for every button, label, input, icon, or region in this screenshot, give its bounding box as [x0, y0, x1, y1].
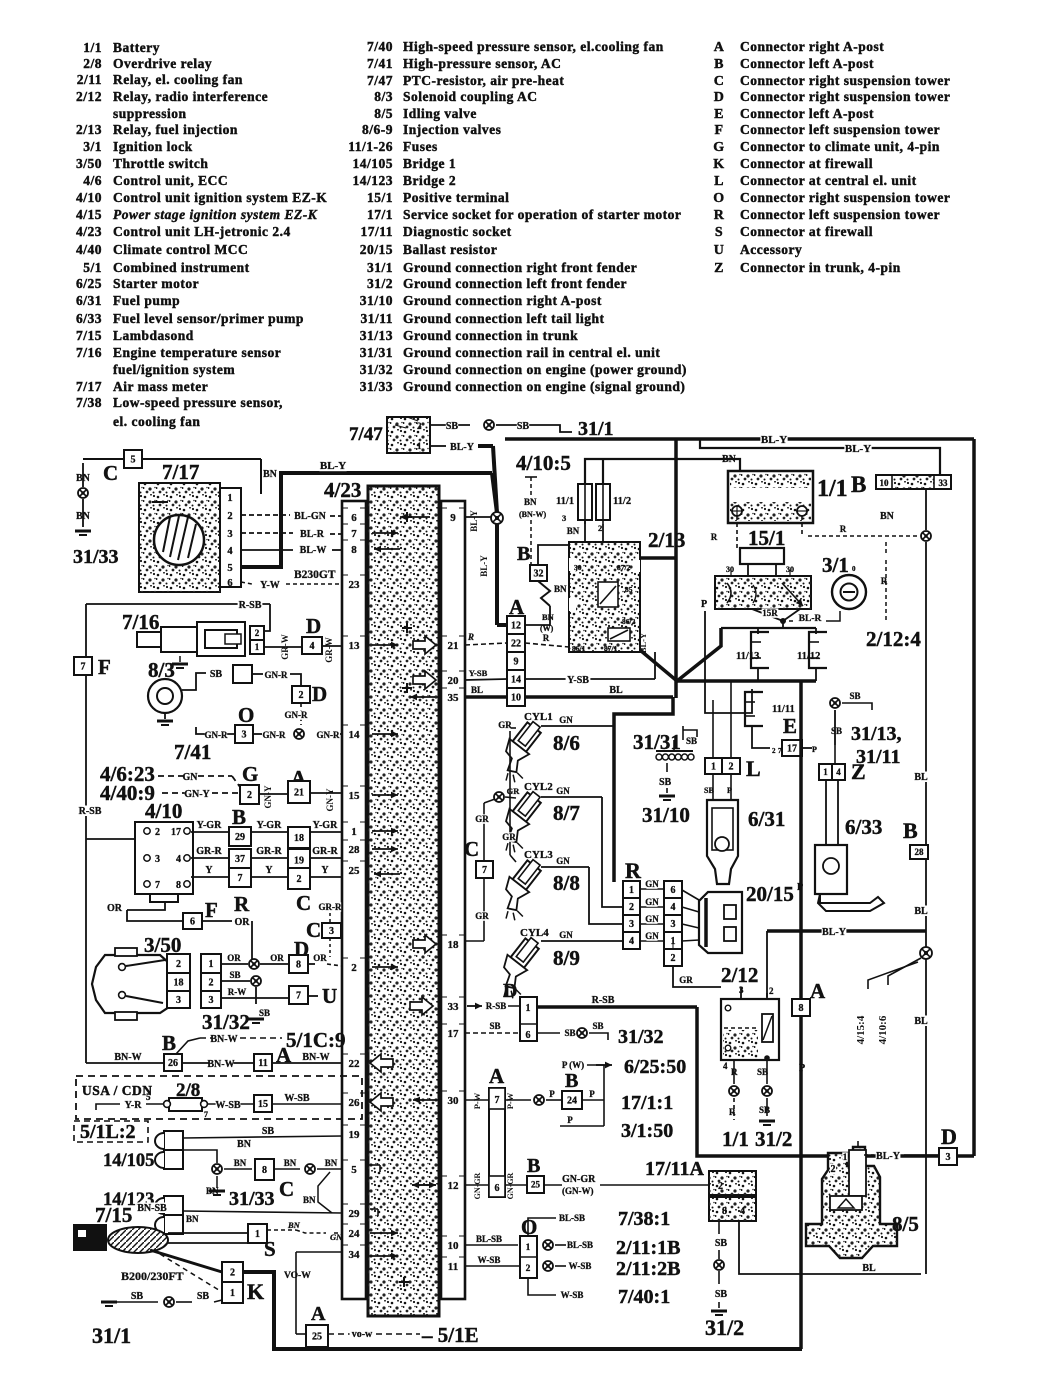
svg-text:1: 1 [227, 493, 232, 504]
svg-text:GR-W: GR-W [280, 634, 290, 660]
svg-text:R: R [714, 208, 725, 223]
svg-text:BN: BN [287, 1220, 301, 1230]
svg-text:SB: SB [686, 736, 697, 746]
svg-text:P (W): P (W) [562, 1060, 584, 1070]
svg-text:el. cooling fan: el. cooling fan [113, 414, 200, 429]
svg-text:GR: GR [507, 786, 521, 796]
svg-text:15: 15 [258, 1099, 268, 1110]
svg-text:4: 4 [629, 936, 634, 947]
svg-text:A: A [489, 1064, 505, 1088]
svg-text:5: 5 [227, 563, 232, 574]
svg-text:25: 25 [349, 865, 361, 877]
svg-text:CYL3: CYL3 [524, 849, 553, 861]
svg-text:BN-W: BN-W [114, 1052, 141, 1063]
svg-text:Connector right suspension tow: Connector right suspension tower [740, 73, 950, 88]
svg-text:4: 4 [723, 1061, 728, 1071]
svg-text:Relay, el. cooling fan: Relay, el. cooling fan [113, 72, 243, 87]
svg-text:GN-R: GN-R [263, 730, 286, 740]
svg-text:1: 1 [526, 1243, 531, 1253]
svg-text:Connector at firewall: Connector at firewall [740, 224, 873, 239]
svg-text:BN: BN [554, 584, 567, 594]
svg-text:Fuel pump: Fuel pump [113, 293, 180, 308]
svg-text:6/25:50: 6/25:50 [624, 1056, 686, 1078]
svg-text:BN-W: BN-W [210, 1034, 237, 1045]
svg-text:6: 6 [190, 917, 195, 928]
svg-text:1: 1 [526, 1003, 531, 1014]
svg-text:C: C [306, 918, 321, 942]
svg-text:20: 20 [448, 675, 460, 687]
svg-text:6: 6 [227, 578, 232, 589]
svg-text:Y: Y [265, 865, 273, 876]
svg-text:P-W: P-W [472, 1092, 482, 1109]
svg-text:BL-Y: BL-Y [761, 434, 787, 446]
svg-text:Service socket for operation o: Service socket for operation of starter … [403, 207, 681, 222]
svg-text:P-W: P-W [505, 1092, 515, 1109]
svg-text:R-SB: R-SB [486, 1001, 507, 1011]
svg-text:21: 21 [448, 640, 459, 652]
svg-text:BN: BN [263, 469, 278, 480]
svg-text:31/32: 31/32 [360, 362, 393, 377]
svg-text:86/2: 86/2 [622, 617, 636, 626]
svg-text:BN: BN [542, 612, 555, 622]
svg-text:BN: BN [186, 1214, 199, 1224]
svg-text:Y-R: Y-R [125, 1100, 143, 1111]
svg-text:31/10: 31/10 [642, 803, 690, 827]
svg-text:1/1: 1/1 [722, 1127, 749, 1151]
svg-text:7/16: 7/16 [122, 610, 159, 634]
svg-text:GN: GN [556, 856, 570, 866]
svg-text:7/15: 7/15 [95, 1203, 132, 1227]
svg-text:R: R [729, 1107, 736, 1117]
svg-text:GN-R: GN-R [205, 730, 228, 740]
svg-text:2: 2 [351, 962, 357, 974]
svg-text:1: 1 [351, 826, 357, 838]
svg-text:BL: BL [914, 906, 928, 917]
svg-text:18: 18 [174, 978, 184, 989]
svg-text:Control unit LH-jetronic 2.4: Control unit LH-jetronic 2.4 [113, 224, 291, 239]
svg-text:O: O [238, 703, 254, 727]
svg-text:GR: GR [498, 720, 512, 730]
svg-text:20/15: 20/15 [360, 242, 393, 257]
svg-text:W-SB: W-SB [561, 1290, 584, 1300]
svg-text:2/12:4: 2/12:4 [866, 627, 921, 651]
svg-text:BN-W: BN-W [207, 1059, 234, 1070]
svg-text:GN-R: GN-R [265, 670, 288, 680]
svg-text:E: E [714, 107, 724, 122]
svg-text:BL-GN: BL-GN [294, 511, 326, 522]
svg-text:6/31: 6/31 [76, 293, 102, 308]
svg-text:21: 21 [294, 788, 304, 799]
svg-text:31/2: 31/2 [705, 1315, 744, 1340]
svg-text:2: 2 [297, 874, 302, 885]
svg-text:6/33: 6/33 [845, 815, 882, 839]
svg-text:20/15: 20/15 [746, 882, 794, 906]
svg-text:Ground connection rail in cent: Ground connection rail in central el. un… [403, 345, 660, 360]
svg-text:32: 32 [534, 569, 544, 580]
svg-text:BN: BN [303, 1195, 316, 1205]
svg-text:29: 29 [235, 832, 245, 843]
svg-text:11/1: 11/1 [556, 496, 574, 507]
svg-text:BL-Y: BL-Y [638, 633, 648, 653]
svg-text:D: D [941, 1124, 957, 1149]
svg-text:GN-GR: GN-GR [473, 1172, 482, 1199]
svg-text:BL-W: BL-W [300, 545, 327, 556]
svg-text:BL-R: BL-R [300, 529, 325, 540]
svg-text:8/8: 8/8 [553, 871, 580, 895]
svg-text:GN-Y: GN-Y [263, 785, 273, 808]
svg-text:BN: BN [325, 1158, 338, 1168]
svg-text:Lambdasond: Lambdasond [113, 328, 194, 343]
svg-text:B: B [903, 818, 918, 843]
svg-text:2: 2 [227, 511, 232, 522]
svg-text:5: 5 [131, 455, 136, 466]
svg-text:2: 2 [155, 827, 160, 838]
svg-text:GN-Y: GN-Y [184, 789, 210, 800]
svg-text:31/1: 31/1 [92, 1323, 131, 1348]
svg-text:24: 24 [349, 1228, 361, 1240]
svg-text:25: 25 [312, 1332, 322, 1343]
svg-text:8/6-9: 8/6-9 [362, 122, 393, 137]
svg-text:11: 11 [448, 1261, 458, 1273]
svg-text:4: 4 [176, 854, 181, 865]
svg-text:14/105: 14/105 [103, 1151, 154, 1171]
svg-text:Y-SB: Y-SB [567, 675, 589, 686]
svg-text:SB: SB [262, 1126, 275, 1137]
svg-text:12: 12 [511, 621, 521, 632]
svg-text:(BN-W): (BN-W) [519, 510, 546, 519]
svg-text:L: L [714, 174, 724, 189]
svg-text:0: 0 [852, 565, 856, 573]
svg-text:BN: BN [284, 1158, 297, 1168]
svg-text:K: K [713, 157, 724, 172]
svg-text:R: R [711, 532, 718, 542]
svg-text:34: 34 [349, 1249, 361, 1261]
svg-text:5: 5 [146, 1092, 151, 1102]
svg-text:7: 7 [296, 991, 301, 1002]
svg-text:6: 6 [526, 1030, 531, 1041]
svg-text:6/25: 6/25 [76, 276, 102, 291]
svg-text:F: F [714, 123, 723, 138]
svg-text:PTC-resistor, air pre-heat: PTC-resistor, air pre-heat [403, 73, 564, 88]
svg-text:17/11: 17/11 [360, 224, 393, 239]
svg-text:O: O [713, 191, 724, 206]
svg-text:BN: BN [567, 526, 580, 536]
svg-text:P: P [549, 1089, 555, 1099]
svg-text:10: 10 [511, 693, 521, 704]
svg-text:3: 3 [209, 995, 214, 1006]
svg-text:7: 7 [155, 880, 160, 891]
svg-text:High-pressure sensor, AC: High-pressure sensor, AC [403, 56, 561, 71]
svg-text:31/2: 31/2 [367, 276, 393, 291]
svg-text:P: P [799, 1063, 805, 1074]
svg-text:8/3: 8/3 [374, 89, 393, 104]
svg-text:SB: SB [659, 777, 672, 788]
svg-text:Connector right suspension tow: Connector right suspension tower [740, 190, 950, 205]
svg-text:K: K [247, 1279, 264, 1304]
svg-text:17: 17 [787, 744, 797, 755]
svg-text:P: P [701, 599, 707, 610]
svg-text:B: B [851, 472, 866, 497]
svg-text:35: 35 [448, 692, 460, 704]
svg-text:2: 2 [247, 790, 252, 801]
svg-text:11: 11 [258, 1058, 267, 1069]
svg-text:Battery: Battery [113, 40, 160, 55]
svg-text:BN: BN [237, 1139, 252, 1150]
svg-text:R-SB: R-SB [592, 995, 615, 1006]
svg-text:L: L [746, 756, 761, 781]
svg-text:GR: GR [475, 911, 489, 921]
svg-text:W-SB: W-SB [569, 1261, 592, 1271]
svg-text:7: 7 [351, 528, 357, 540]
svg-text:Control unit ignition system E: Control unit ignition system EZ-K [113, 190, 327, 205]
svg-text:BL: BL [862, 1263, 876, 1274]
svg-text:GN-R: GN-R [317, 730, 340, 740]
svg-text:8/7: 8/7 [553, 801, 580, 825]
svg-text:D: D [312, 682, 327, 706]
svg-text:31/33: 31/33 [360, 379, 393, 394]
svg-text:2: 2 [769, 986, 774, 996]
svg-text:GR: GR [679, 975, 693, 985]
svg-text:Ground connection on engine (s: Ground connection on engine (signal grou… [403, 379, 685, 394]
svg-text:Ground connection on engine (p: Ground connection on engine (power groun… [403, 362, 687, 377]
svg-text:GR: GR [502, 832, 516, 842]
svg-text:7/38: 7/38 [76, 395, 102, 410]
svg-text:Diagnostic socket: Diagnostic socket [403, 224, 512, 239]
svg-text:8: 8 [799, 1003, 804, 1014]
svg-text:E: E [783, 714, 797, 738]
svg-text:8: 8 [296, 960, 301, 971]
svg-text:B200/230FT: B200/230FT [121, 1269, 184, 1283]
svg-text:GN: GN [559, 930, 573, 940]
svg-text:87/1: 87/1 [604, 644, 618, 653]
svg-text:2/8: 2/8 [83, 56, 102, 71]
svg-text:1: 1 [255, 642, 260, 652]
svg-text:Connector to climate unit, 4-p: Connector to climate unit, 4-pin [740, 139, 940, 154]
svg-text:C: C [296, 891, 311, 915]
svg-text:Idling valve: Idling valve [403, 106, 477, 121]
svg-text:2: 2 [299, 690, 304, 701]
svg-text:R: R [234, 892, 250, 916]
svg-text:1: 1 [255, 1229, 260, 1240]
svg-text:5/1C:9: 5/1C:9 [286, 1028, 346, 1052]
svg-text:3/1:50: 3/1:50 [621, 1120, 673, 1142]
svg-text:24: 24 [567, 1096, 577, 1107]
svg-text:11/2: 11/2 [613, 496, 631, 507]
svg-text:P: P [567, 1115, 573, 1125]
svg-text:BN: BN [524, 497, 537, 507]
svg-text:5: 5 [351, 1164, 357, 1176]
svg-text:BL-SB: BL-SB [559, 1213, 585, 1223]
svg-text:BL-Y: BL-Y [876, 1151, 901, 1162]
svg-text:suppression: suppression [113, 106, 187, 121]
svg-text:15: 15 [349, 790, 361, 802]
svg-text:31/1: 31/1 [578, 418, 614, 440]
svg-text:7: 7 [204, 1110, 208, 1119]
svg-text:5/1L:2: 5/1L:2 [80, 1121, 136, 1143]
svg-text:17: 17 [171, 827, 181, 838]
svg-text:BL: BL [914, 1016, 928, 1027]
svg-text:6/31: 6/31 [748, 807, 785, 831]
svg-text:17/11A: 17/11A [645, 1158, 704, 1180]
svg-text:Bridge 2: Bridge 2 [403, 173, 456, 188]
svg-text:2: 2 [718, 1181, 723, 1192]
svg-text:GR-R: GR-R [196, 846, 222, 857]
svg-text:SB: SB [446, 421, 459, 432]
svg-text:Injection valves: Injection valves [403, 122, 501, 137]
svg-text:85: 85 [625, 585, 633, 594]
svg-text:BL-Y: BL-Y [822, 927, 847, 938]
svg-text:GN-GR: GN-GR [506, 1172, 515, 1199]
svg-text:BN-SB: BN-SB [137, 1203, 167, 1214]
svg-text:13: 13 [349, 640, 361, 652]
svg-text:3: 3 [946, 1152, 951, 1163]
svg-text:19: 19 [349, 1129, 361, 1141]
svg-text:P: P [589, 1089, 595, 1099]
svg-text:GN-R: GN-R [285, 710, 308, 720]
svg-text:SB: SB [849, 691, 860, 701]
svg-text:4/23: 4/23 [76, 224, 102, 239]
svg-text:Connector at central el. unit: Connector at central el. unit [740, 173, 917, 188]
svg-text:2: 2 [629, 902, 634, 913]
svg-text:A: A [311, 1303, 326, 1325]
svg-text:33: 33 [939, 478, 949, 488]
svg-text:fuel/ignition system: fuel/ignition system [113, 362, 235, 377]
svg-text:11/12: 11/12 [797, 651, 820, 662]
svg-text:Bridge 1: Bridge 1 [403, 156, 456, 171]
svg-text:3: 3 [329, 926, 334, 937]
svg-text:Connector at firewall: Connector at firewall [740, 156, 873, 171]
svg-text:31/32: 31/32 [202, 1010, 250, 1034]
svg-text:15/1: 15/1 [367, 190, 393, 205]
svg-text:Connector right suspension tow: Connector right suspension tower [740, 89, 950, 104]
svg-text:Solenoid coupling AC: Solenoid coupling AC [403, 89, 538, 104]
svg-text:SB: SB [715, 1238, 728, 1249]
svg-text:– 5/1E: – 5/1E [421, 1323, 479, 1347]
svg-text:12: 12 [448, 1180, 460, 1192]
svg-text:31/13,: 31/13, [851, 723, 902, 745]
svg-text:2/11: 2/11 [77, 72, 102, 87]
svg-text:SB: SB [229, 970, 240, 980]
svg-text:14: 14 [349, 729, 361, 741]
svg-text:2: 2 [255, 628, 260, 638]
svg-text:3: 3 [176, 995, 181, 1006]
svg-text:R: R [467, 632, 474, 642]
svg-text:6: 6 [671, 885, 676, 896]
svg-text:8/9: 8/9 [553, 946, 580, 970]
svg-text:BL-Y: BL-Y [845, 443, 871, 455]
svg-text:B: B [565, 1070, 578, 1092]
svg-text:14/123: 14/123 [352, 173, 393, 188]
svg-text:31/33: 31/33 [229, 1188, 275, 1210]
svg-text:2: 2 [526, 1264, 531, 1274]
svg-text:BL-SB: BL-SB [476, 1234, 502, 1244]
svg-text:GR-W: GR-W [324, 637, 334, 663]
svg-text:GN-Y: GN-Y [325, 788, 335, 811]
svg-text:BL-Y: BL-Y [469, 510, 479, 532]
svg-text:22: 22 [349, 1058, 361, 1070]
svg-text:Y: Y [321, 865, 329, 876]
svg-text:Connector left A-post: Connector left A-post [740, 106, 874, 121]
svg-text:R: R [840, 524, 847, 534]
svg-text:C: C [103, 461, 118, 485]
svg-text:GR-R: GR-R [256, 846, 282, 857]
svg-text:GN: GN [645, 879, 659, 889]
svg-text:BN: BN [76, 511, 91, 522]
svg-text:22: 22 [511, 639, 521, 650]
svg-text:4/15: 4/15 [76, 207, 102, 222]
svg-text:11/1-26: 11/1-26 [348, 139, 393, 154]
svg-text:4/10: 4/10 [76, 190, 102, 205]
svg-text:BL: BL [609, 685, 623, 696]
svg-text:7/47: 7/47 [349, 424, 383, 445]
svg-text:BL-R: BL-R [799, 614, 822, 624]
svg-text:2: 2 [671, 953, 676, 964]
svg-text:C: C [714, 74, 725, 89]
svg-text:3/1: 3/1 [822, 553, 849, 577]
svg-text:R-SB: R-SB [79, 806, 102, 817]
svg-text:4/6: 4/6 [83, 173, 102, 188]
svg-text:3: 3 [562, 513, 566, 523]
svg-text:Power stage ignition system EZ: Power stage ignition system EZ-K [113, 207, 318, 222]
svg-text:30: 30 [726, 565, 734, 574]
svg-text:(GN-W): (GN-W) [562, 1186, 594, 1196]
svg-text:Low-speed pressure sensor,: Low-speed pressure sensor, [113, 395, 283, 410]
svg-text:Ground connection in trunk: Ground connection in trunk [403, 328, 578, 343]
svg-text:4/15:4: 4/15:4 [855, 1015, 867, 1044]
svg-text:2: 2 [209, 978, 214, 989]
svg-text:3: 3 [242, 730, 247, 741]
svg-text:31/2: 31/2 [755, 1127, 792, 1151]
svg-text:B: B [162, 1031, 176, 1055]
svg-text:31/11: 31/11 [360, 311, 393, 326]
svg-text:30: 30 [448, 1095, 460, 1107]
svg-text:W-SB: W-SB [478, 1255, 501, 1265]
svg-text:GN-GR: GN-GR [562, 1174, 596, 1185]
svg-text:Ground connection left tail li: Ground connection left tail light [403, 311, 605, 326]
svg-text:8: 8 [722, 1206, 727, 1217]
svg-text:Y: Y [205, 865, 213, 876]
svg-text:28: 28 [349, 844, 361, 856]
svg-text:3: 3 [155, 854, 160, 865]
svg-text:OR: OR [235, 917, 251, 928]
svg-text:11/13: 11/13 [736, 651, 759, 662]
svg-text:4/10:6: 4/10:6 [877, 1015, 889, 1044]
svg-text:7: 7 [81, 662, 86, 673]
svg-text:U: U [714, 243, 725, 258]
svg-text:U: U [322, 984, 337, 1008]
svg-text:BN-W: BN-W [302, 1052, 329, 1063]
svg-text:USA / CDN: USA / CDN [82, 1083, 153, 1098]
svg-text:SB: SB [489, 1021, 500, 1031]
svg-text:31/32: 31/32 [618, 1026, 664, 1048]
svg-text:18: 18 [448, 939, 460, 951]
svg-text:Y-GR: Y-GR [313, 820, 338, 831]
svg-text:1: 1 [823, 767, 828, 777]
svg-text:2/13: 2/13 [648, 528, 685, 552]
svg-text:1: 1 [629, 885, 634, 896]
svg-text:10: 10 [448, 1240, 460, 1252]
svg-text:A: A [714, 40, 725, 55]
svg-text:1: 1 [230, 1288, 235, 1299]
svg-text:Ignition lock: Ignition lock [113, 139, 193, 154]
svg-text:5/1: 5/1 [83, 260, 102, 275]
svg-text:9: 9 [450, 512, 456, 524]
svg-text:SB: SB [831, 726, 842, 736]
svg-text:F: F [98, 655, 111, 679]
svg-text:BL: BL [914, 772, 928, 783]
svg-text:SB: SB [210, 669, 223, 680]
svg-text:D: D [306, 614, 321, 638]
